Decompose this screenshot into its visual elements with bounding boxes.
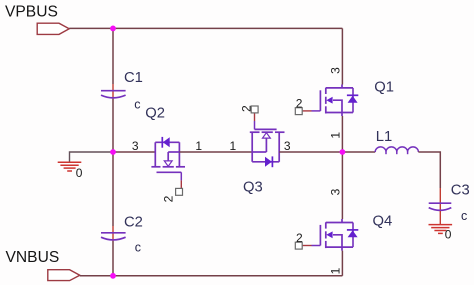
- wire top-right vertical to Q1 drain: [341, 28, 343, 84]
- svg-text:C3: C3: [451, 183, 470, 199]
- source stub: [341, 247, 343, 251]
- port VPBUS: [37, 23, 69, 34]
- svg-text:3: 3: [284, 139, 291, 153]
- wire middle ground stub: [70, 152, 114, 162]
- top line (drain connect): [326, 87, 353, 89]
- gate pin of Q3: [254, 113, 256, 122]
- body diode of Q2: [161, 137, 163, 148]
- gate pin of Q2: [180, 172, 182, 180]
- channel dashes: [325, 88, 327, 94]
- svg-text:VPBUS: VPBUS: [5, 4, 58, 21]
- gate bar: [157, 171, 182, 173]
- svg-text:C2: C2: [124, 215, 143, 231]
- wire middle junction to Q2 drain: [113, 151, 155, 153]
- transistor Q3 (horizontal MOSFET, source left, gate top): [250, 129, 285, 161]
- wire right junction to L1: [342, 151, 375, 153]
- wire Q4 source down to bottom bus: [341, 251, 343, 276]
- wire Q2 source to Q3 source: [179, 151, 252, 153]
- drain stub: [341, 219, 343, 223]
- channel dashes: [151, 166, 160, 168]
- left vertical (drain connect): [154, 142, 156, 167]
- svg-text:VNBUS: VNBUS: [6, 249, 60, 266]
- transistor Q4 (vertical MOSFET): [320, 219, 353, 251]
- unconnected pin square Q1 gate: [295, 108, 302, 115]
- capacitor C1: [101, 91, 126, 98]
- substrate line: [333, 235, 342, 247]
- diode line top: [155, 141, 179, 143]
- ground 0 (left): [58, 162, 82, 171]
- substrate line: [333, 100, 342, 112]
- port VNBUS: [48, 270, 80, 281]
- svg-text:L1: L1: [376, 129, 392, 145]
- junction VPBUS/C1: [110, 26, 116, 32]
- inductor L1: [375, 147, 418, 154]
- right vertical (source connect): [178, 142, 180, 167]
- source stub: [341, 113, 343, 117]
- wire C1 to middle junction: [112, 99, 114, 152]
- svg-text:2: 2: [239, 105, 253, 112]
- body diode of Q1: [352, 88, 354, 113]
- svg-text:C1: C1: [124, 70, 143, 86]
- svg-text:c: c: [135, 241, 141, 255]
- wire right junction down to Q4 drain: [341, 152, 343, 219]
- svg-text:Q2: Q2: [145, 106, 165, 122]
- gate pin of Q4: [303, 245, 312, 247]
- svg-text:3: 3: [328, 188, 342, 195]
- drain stub: [341, 85, 343, 88]
- capacitor C2: [101, 233, 126, 240]
- substrate arrow of Q4: [326, 231, 332, 238]
- junction middle node: [110, 149, 116, 155]
- body diode of Q3: [271, 156, 273, 167]
- wire Q1 source to right junction: [341, 116, 343, 152]
- svg-text:1: 1: [328, 267, 342, 274]
- bottom line (source connect): [326, 112, 353, 114]
- svg-text:Q3: Q3: [243, 180, 263, 196]
- svg-text:1: 1: [328, 132, 342, 139]
- gate bar: [319, 90, 321, 111]
- wire left vertical VPBUS junction to C1: [112, 28, 114, 84]
- transistor Q2 (horizontal MOSFET, drain left): [151, 142, 185, 172]
- svg-text:3: 3: [132, 139, 139, 153]
- pin of C3 (red): [439, 188, 441, 211]
- svg-text:3: 3: [328, 67, 342, 74]
- substrate arrow of Q2: [164, 161, 172, 166]
- ground 0 (right): [429, 225, 453, 234]
- wire Q3 drain to right junction: [279, 151, 342, 153]
- svg-text:1: 1: [195, 139, 202, 153]
- diode line bottom: [252, 161, 279, 163]
- substrate line: [265, 139, 267, 153]
- pin of C2 (red): [112, 226, 114, 241]
- bottom line (source connect): [326, 246, 353, 248]
- left vertical (source connect): [251, 132, 253, 162]
- gate bar: [255, 128, 277, 130]
- svg-text:c: c: [461, 209, 467, 223]
- wire middle junction to C2: [112, 152, 114, 226]
- pin of C1 (red): [112, 84, 114, 99]
- unconnected pin square Q4 gate: [295, 242, 302, 249]
- channel dashes: [250, 131, 260, 133]
- wire top bus VPBUS to corner: [69, 27, 342, 29]
- wire bottom bus: [80, 275, 343, 277]
- svg-text:0: 0: [76, 166, 83, 180]
- substrate arrow of Q1: [326, 97, 332, 104]
- unconnected pin square Q3 gate: [251, 106, 258, 113]
- svg-text:c: c: [134, 97, 140, 111]
- svg-text:1: 1: [230, 139, 237, 153]
- unconnected pin square Q2 gate: [176, 188, 183, 195]
- svg-text:2: 2: [296, 231, 303, 245]
- junction VNBUS/C2: [110, 273, 116, 279]
- svg-text:2: 2: [296, 96, 303, 110]
- substrate line: [167, 152, 169, 161]
- right vertical (drain connect): [278, 132, 280, 162]
- wire C3 to ground: [439, 211, 441, 224]
- wire C2 to bottom junction: [112, 241, 114, 276]
- substrate arrow of Q3: [263, 133, 271, 138]
- svg-text:Q1: Q1: [374, 80, 394, 96]
- transistor Q1 (vertical MOSFET): [320, 85, 353, 117]
- svg-text:2: 2: [162, 195, 176, 202]
- gate bar: [319, 225, 321, 246]
- svg-text:Q4: Q4: [373, 214, 393, 230]
- svg-text:0: 0: [445, 228, 452, 242]
- gate pin of Q1: [303, 110, 312, 112]
- channel dashes: [325, 222, 327, 228]
- body diode of Q4: [352, 223, 354, 248]
- junction right node: [340, 149, 346, 155]
- top line (drain connect): [326, 222, 353, 224]
- capacitor C3: [429, 203, 452, 210]
- wire L1 to C3: [418, 152, 440, 188]
